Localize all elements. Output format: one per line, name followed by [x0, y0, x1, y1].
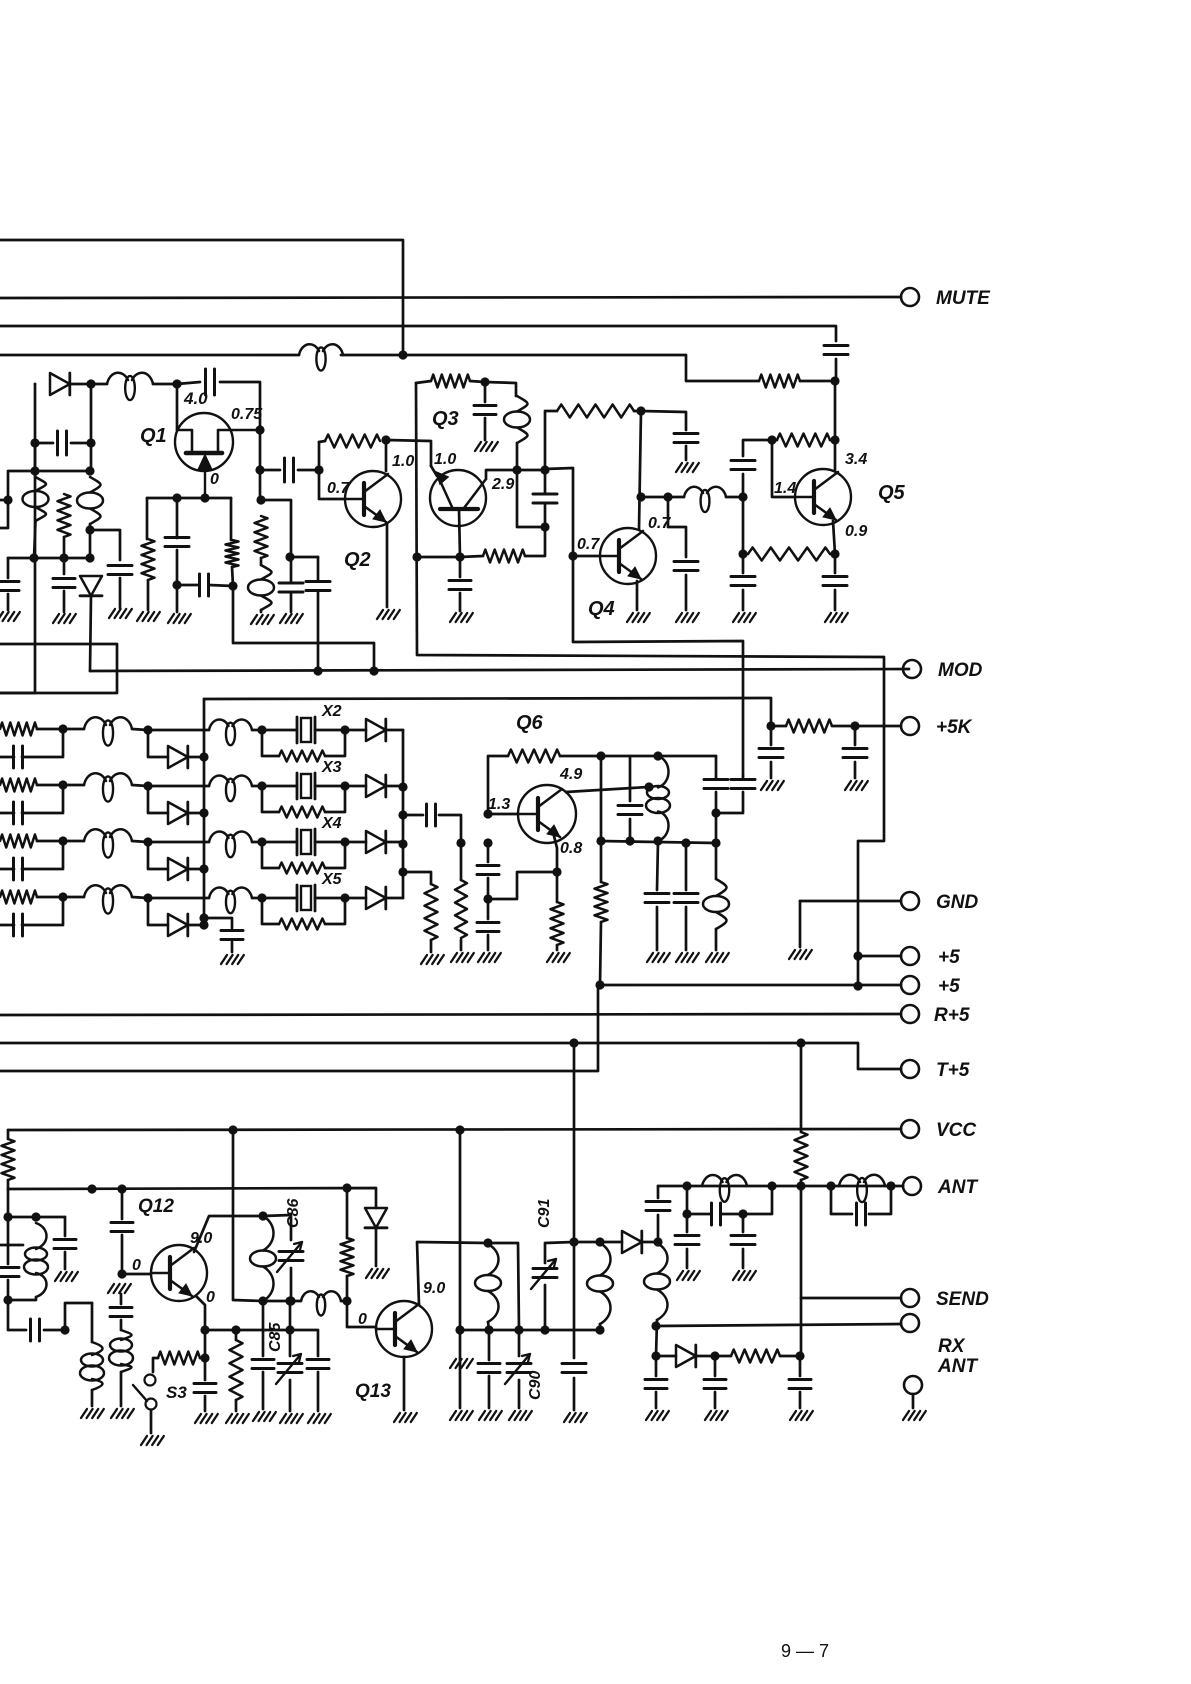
wire 743 cap stem	[742, 554, 745, 573]
diode Q12 clamp	[365, 1208, 387, 1228]
svg-text:ANT: ANT	[937, 1177, 978, 1198]
node row b	[117, 1184, 126, 1193]
ground 574	[564, 1413, 587, 1422]
wire emit cap	[204, 1358, 207, 1380]
node 488-843	[483, 838, 492, 847]
inductor out1	[475, 1244, 501, 1322]
ground Q3 emitter	[450, 613, 473, 622]
label X3	[321, 759, 342, 776]
wire bus2 bottom	[402, 872, 405, 898]
svg-text:MUTE: MUTE	[936, 288, 991, 309]
node ANT mid	[796, 1181, 805, 1190]
ground Q1 coil	[251, 615, 274, 624]
resistor +5 dropper	[595, 882, 608, 922]
svg-text:C90: C90	[527, 1371, 544, 1400]
resistor Q2 fb	[325, 435, 380, 448]
label RX	[938, 1336, 966, 1357]
transistor Q1	[175, 413, 260, 498]
wire capB gnd	[487, 935, 490, 950]
connector +5K	[901, 717, 919, 735]
node T2 tap	[85, 525, 94, 534]
node 498b	[200, 493, 209, 502]
wire coll row	[641, 496, 668, 499]
node tank bot	[258, 1296, 267, 1305]
ground C85	[280, 1414, 303, 1423]
resistor Q4 top	[557, 405, 634, 418]
wire out2 tail	[599, 1324, 602, 1330]
node coll tap	[644, 782, 653, 791]
node Q12 base	[117, 1269, 126, 1278]
resistor X3 parallel	[279, 807, 325, 818]
node 545-1330	[540, 1325, 549, 1334]
wire tank row	[8, 1216, 65, 1219]
wire y644 stub	[0, 644, 117, 671]
node Q5 emit	[830, 549, 839, 558]
wire cap to Q2 base	[298, 470, 345, 499]
wire SEND lead	[801, 1297, 901, 1300]
node Q4 base	[568, 551, 577, 560]
wire left col	[34, 443, 37, 471]
wire cap left lead	[35, 442, 53, 445]
wire xfmr stub	[0, 1244, 23, 1247]
wire out1 tail	[488, 1322, 489, 1330]
svg-text:0.8: 0.8	[560, 840, 582, 857]
wire to cap 686	[641, 411, 686, 430]
wire c90 leads	[518, 1330, 521, 1408]
wire res down	[525, 527, 545, 556]
svg-text:Q3: Q3	[432, 408, 459, 430]
wire to gnd	[459, 593, 462, 611]
ground clamp	[366, 1269, 389, 1278]
resistor IF bias	[58, 494, 71, 537]
wire diode branch X2	[148, 730, 168, 757]
wire MOD bus	[90, 669, 909, 671]
wire xfmr gnd chain	[657, 841, 658, 890]
crystal X5	[297, 885, 315, 911]
wire Q4 emitter	[636, 581, 639, 610]
wire GND drop	[799, 901, 802, 947]
svg-text:C86: C86	[285, 1199, 302, 1228]
node midleg row	[172, 580, 181, 589]
capacitor x263	[252, 1360, 274, 1369]
node s3 row	[200, 1353, 209, 1362]
wire T+5 col	[573, 1043, 576, 1242]
wire +5a lead	[858, 955, 901, 958]
node X4 crystal left	[257, 837, 266, 846]
wire spur 643	[233, 586, 374, 671]
wire cap down	[629, 819, 632, 841]
node diode row	[86, 379, 95, 388]
label page number	[781, 1641, 829, 1661]
wire xtal leads X2	[262, 729, 345, 732]
wire c85 leads	[289, 1330, 292, 1411]
node Q5 res left	[767, 435, 776, 444]
wire left leg 498	[146, 498, 149, 539]
node 716-813	[711, 808, 720, 817]
resistor Q6 base lower	[455, 880, 467, 938]
wire LC1 l cap	[686, 1214, 689, 1232]
wire 489 cap	[488, 1330, 491, 1360]
transistor Q12	[151, 1245, 207, 1301]
svg-text:0.7: 0.7	[577, 536, 600, 553]
capacitor Q6 base A	[477, 866, 499, 875]
wire q3 base feed	[431, 466, 437, 476]
label VCC	[936, 1120, 976, 1141]
svg-text:1.4: 1.4	[774, 480, 796, 497]
wire to coupling cap	[260, 469, 280, 472]
wire x347	[346, 1188, 349, 1238]
wire Q4 base spur	[573, 556, 743, 776]
label 0.9	[845, 523, 867, 540]
svg-text:C85: C85	[267, 1322, 284, 1352]
node tank m	[31, 1212, 40, 1221]
inductor X4 right	[209, 831, 252, 857]
capacitor mid leg	[165, 538, 189, 547]
node VCC c90	[455, 1125, 464, 1134]
capacitor ANT sh2	[731, 1236, 755, 1245]
wire emit lead	[459, 509, 460, 557]
capacitor xfmr	[645, 894, 669, 903]
resistor Q1 left	[142, 539, 155, 580]
ground Q5 left	[733, 613, 756, 622]
capacitor LC2	[857, 1203, 866, 1225]
wire dropper leads	[600, 841, 601, 985]
svg-text:0: 0	[358, 1311, 367, 1328]
connector T+5	[901, 1060, 919, 1078]
diode D-left	[50, 373, 70, 395]
inductor Q12 tank	[250, 1216, 276, 1301]
ground mid leg	[168, 614, 191, 623]
wire cap gnd	[685, 575, 688, 610]
diode D-shunt	[80, 576, 102, 596]
svg-text:X3: X3	[321, 759, 342, 776]
wire Q5 emit lead	[833, 521, 835, 554]
capacitor Q6 coupling	[427, 804, 436, 826]
capacitor Q6 rail	[618, 806, 642, 815]
wire to cap 4.0	[177, 382, 200, 384]
wire T2 mid tap	[90, 530, 120, 560]
ground Q12 emit	[195, 1414, 218, 1423]
wire x8 capchain	[7, 1217, 10, 1264]
node Q1-Q2 cap	[255, 465, 264, 474]
connector RX ANT	[904, 1376, 922, 1394]
inductor X3 left	[84, 773, 132, 801]
wire diode branch X3	[148, 786, 168, 813]
wire cap to gnd	[119, 578, 122, 608]
wire 1243 corner	[488, 1243, 519, 1330]
wire outA down	[715, 792, 718, 813]
node 600-1330	[595, 1325, 604, 1334]
wire Q3 res corner	[416, 381, 431, 383]
transistor Q6	[518, 785, 576, 843]
capacitor det b	[704, 1380, 726, 1389]
wire L out	[341, 1300, 347, 1303]
wire top to coil	[485, 382, 516, 396]
wire w2 gnd	[91, 1390, 94, 1406]
ground bias bus	[221, 955, 244, 964]
svg-text:9.0: 9.0	[423, 1280, 445, 1297]
node T1 left tap	[3, 495, 12, 504]
wire diode to bus	[90, 596, 91, 671]
label ANT	[937, 1177, 978, 1198]
wire diode to bus X5	[188, 924, 204, 927]
ground det c	[790, 1411, 813, 1420]
wire 668 drop	[668, 497, 686, 557]
crystal X4	[297, 829, 315, 855]
label 4.0	[183, 389, 208, 408]
wire 716 link	[715, 813, 718, 843]
wire L ends X2	[63, 729, 148, 730]
node X5 crystal right	[340, 893, 349, 902]
node X4 in	[58, 836, 67, 845]
wire par res X5	[262, 898, 345, 924]
wire row2 to L	[291, 1300, 301, 1303]
crystal X2	[297, 717, 315, 743]
connector +5 a	[901, 947, 919, 965]
node +5K right	[850, 721, 859, 730]
node X2 in	[58, 724, 67, 733]
wire coll corner	[263, 1215, 291, 1240]
wire fb to rail	[560, 755, 601, 758]
wire diode out X4	[345, 841, 403, 844]
wire to L	[668, 496, 684, 499]
wire 600 row	[545, 1329, 600, 1332]
wire LC1 r cap	[742, 1214, 745, 1232]
wire det gnd b	[714, 1392, 717, 1408]
node rx join	[651, 1321, 660, 1330]
svg-text:ANT: ANT	[937, 1356, 978, 1377]
wire par res X4	[262, 842, 345, 868]
wire tank cap gnd	[64, 1252, 67, 1269]
wire gnd stem2	[854, 762, 857, 778]
wire row557 left	[417, 556, 460, 559]
wire Q1 drain lead	[176, 384, 179, 430]
svg-text:RX: RX	[938, 1336, 966, 1357]
ground tank cap	[55, 1272, 78, 1281]
wire s3 corner	[153, 1358, 205, 1372]
ground w2	[81, 1409, 104, 1418]
wire xtal leads X5	[262, 897, 345, 900]
wire emit res	[556, 872, 559, 950]
wire ring left	[486, 470, 517, 479]
wire diode branch X5	[148, 898, 168, 925]
capacitor Q6 base B	[477, 923, 499, 932]
node row c	[342, 1183, 351, 1192]
wire corner 743-440	[743, 440, 772, 456]
wire tank cap drop	[64, 1217, 67, 1236]
variable capacitor C91	[531, 1259, 557, 1289]
wire to row	[7, 1180, 10, 1189]
node row558 a	[29, 553, 38, 562]
wire L2 X2	[252, 729, 262, 732]
wire cap lead X3	[0, 785, 63, 813]
node det b	[710, 1351, 719, 1360]
node VCC q12	[228, 1125, 237, 1134]
wire x417 vertical	[416, 383, 884, 986]
wire T2 bottom	[89, 524, 92, 558]
node row841 left	[596, 836, 605, 845]
wire T+5 to res	[800, 1043, 803, 1132]
wire diode out X3	[345, 785, 403, 788]
svg-text:C91: C91	[536, 1199, 553, 1228]
label 9.0 Q12	[190, 1230, 212, 1247]
ground Q1 left res	[137, 612, 160, 621]
wire cap gnd stem	[685, 446, 688, 460]
node det a	[651, 1351, 660, 1360]
node ANT b	[767, 1181, 776, 1190]
label 4.9	[559, 766, 582, 783]
wire base lead	[122, 1273, 151, 1276]
node row841 sec	[681, 838, 690, 847]
wire bus 4 right	[341, 355, 759, 381]
inductor X3 right	[209, 775, 252, 801]
transistor Q2	[345, 471, 401, 527]
node bus4-vert	[398, 350, 407, 359]
wire row 1330	[460, 1329, 545, 1332]
wire 574 row	[574, 1241, 600, 1244]
capacitor Q12 emit	[194, 1384, 216, 1393]
ground 489	[479, 1411, 502, 1420]
wire R+5 bus	[0, 1014, 901, 1015]
wire 835 cap stem	[834, 554, 837, 573]
capacitor out B	[731, 780, 755, 789]
wire cap to base	[439, 815, 461, 843]
wire gnd stem2	[834, 590, 837, 610]
inductor Q4-Q5	[684, 487, 726, 512]
node 586	[228, 581, 237, 590]
wire cap mid leads	[544, 470, 547, 527]
wire sh1 gnd	[686, 1249, 689, 1268]
wire LC2 left	[831, 1186, 852, 1214]
label SEND	[936, 1289, 989, 1310]
resistor Q5 upper	[777, 434, 830, 447]
wire cap down	[742, 474, 745, 497]
svg-text:9 — 7: 9 — 7	[781, 1641, 829, 1661]
label C91	[536, 1199, 553, 1228]
svg-text:Q4: Q4	[588, 598, 615, 620]
ground Q6 base	[478, 953, 501, 962]
wire Q4 base	[573, 555, 600, 558]
wire outB leads	[716, 776, 743, 813]
wire left cap stem	[770, 726, 773, 745]
node 668-497	[663, 492, 672, 501]
wire T+5 bus	[0, 1042, 801, 1045]
ground ANT sh1	[677, 1271, 700, 1280]
diode X3 out	[366, 775, 386, 797]
svg-text:X2: X2	[321, 703, 342, 720]
svg-text:4.0: 4.0	[183, 389, 208, 408]
capacitor in series	[31, 1319, 40, 1341]
resistor Q1 source	[255, 516, 268, 558]
node bus X4	[199, 864, 208, 873]
ground +5K right	[845, 781, 868, 790]
wire bias bus top	[204, 698, 771, 726]
ground mid marks	[450, 1359, 473, 1368]
wire Q13 emit	[403, 1357, 406, 1410]
node Q5 coll	[830, 435, 839, 444]
svg-text:T+5: T+5	[936, 1060, 970, 1081]
wire res to node	[800, 380, 835, 383]
label 0 Q13	[358, 1311, 367, 1328]
wire L2 X5	[252, 897, 262, 900]
wire gnd stem	[742, 590, 745, 610]
node 600-1242	[595, 1237, 604, 1246]
wire Q4 collector	[639, 411, 641, 529]
wire send riser	[800, 1186, 803, 1356]
wire base fb riser	[488, 756, 508, 814]
resistor Q3 emitter	[483, 550, 525, 563]
capacitor 743	[731, 461, 755, 470]
ground RX ANT	[903, 1411, 926, 1420]
node X5 mid	[143, 893, 152, 902]
wire Q5 base	[772, 440, 795, 497]
node X2 crystal left	[257, 725, 266, 734]
diode X4 switch	[168, 858, 188, 880]
node emit row	[200, 1325, 209, 1334]
wire Q5 coll lead	[834, 440, 837, 470]
wire Q12 emitter	[196, 1296, 205, 1330]
node row a	[87, 1184, 96, 1193]
capacitor 574	[562, 1364, 586, 1373]
inductor rx coil	[644, 1243, 670, 1320]
connector R+5	[901, 1005, 919, 1023]
wire res to node X5	[37, 896, 63, 899]
ground sec coil	[706, 953, 729, 962]
connector SEND	[901, 1289, 919, 1307]
inductor Q1 source coil	[248, 565, 274, 610]
ground lower res	[451, 953, 474, 962]
resistor Q6 feedback	[508, 750, 560, 763]
wire c85b corner	[290, 1330, 318, 1356]
node +5K left	[766, 721, 775, 730]
capacitor row585	[200, 574, 209, 596]
capacitor ant col	[646, 1202, 670, 1211]
wire LC2 right	[869, 1186, 891, 1214]
resistor row X4 input	[0, 835, 37, 848]
resistor +5K	[786, 720, 832, 733]
wire res to node	[470, 381, 485, 382]
svg-text:0.7: 0.7	[327, 480, 350, 497]
wire L ends X5	[63, 897, 148, 898]
wire Q13 base feed	[347, 1301, 376, 1327]
node ANT d	[886, 1181, 895, 1190]
wire res to node X4	[37, 840, 63, 843]
node Q1 src row	[256, 495, 265, 504]
resistor emit shunt	[230, 1340, 243, 1400]
wire det caps b	[714, 1356, 717, 1376]
variable capacitor C85	[276, 1354, 302, 1384]
connector VCC	[901, 1120, 919, 1138]
inductor Q3 coil	[504, 396, 530, 443]
wire ring bottom	[517, 470, 543, 527]
wire bus 4 left	[0, 354, 299, 357]
diode X3 switch	[168, 802, 188, 824]
node diode out	[653, 1237, 662, 1246]
wire emit cap gnd	[204, 1396, 207, 1411]
wire T1 bottom	[34, 521, 36, 558]
node X4 mid	[143, 837, 152, 846]
resistor S3 feed	[158, 1352, 200, 1365]
wire leg gnd	[147, 580, 150, 610]
capacitor sec	[674, 894, 698, 903]
wire coll to Q3	[386, 440, 431, 466]
svg-text:VCC: VCC	[936, 1120, 976, 1141]
node bus2 tap	[398, 810, 407, 819]
wire rxant gnd	[912, 1394, 915, 1408]
wire 460 tail	[459, 1330, 462, 1408]
wire rleg	[232, 567, 233, 586]
node X4 crystal right	[340, 837, 349, 846]
